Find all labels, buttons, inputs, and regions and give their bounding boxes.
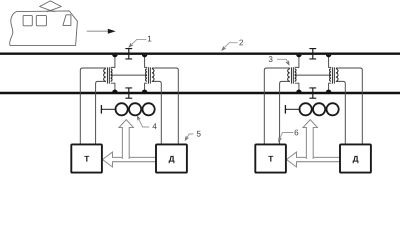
wire bond T2 secondary top to box D	[152, 68, 178, 145]
impedance bond transformer T1	[104, 67, 112, 83]
junction dot bottom rail left (right unit)	[296, 90, 301, 93]
junction dot bottom rail left	[112, 90, 117, 93]
wire bond T3 secondary top to box T2	[264, 68, 290, 145]
wire from top rail to bond T3 rail winding	[295, 55, 299, 68]
insulated joint on top rail (right unit)	[309, 49, 316, 59]
wire terminal to circles	[101, 108, 115, 110]
label D	[169, 156, 175, 163]
rail (top)	[0, 53, 400, 55]
junction dot bottom rail right (right unit)	[326, 89, 331, 92]
callout label 5 (box D)	[185, 131, 200, 140]
callout label 6 (box T of right unit)	[279, 130, 299, 142]
impedance bond transformer T4	[330, 67, 338, 83]
box T (transmitter)	[71, 144, 102, 172]
hollow arrow from box D2 to box T2	[287, 152, 341, 167]
callout label 3 (bond of right unit)	[269, 56, 289, 64]
junction dot top rail right (right unit)	[326, 55, 331, 58]
label T2	[268, 156, 273, 162]
coil circle 2	[129, 103, 141, 115]
coil circle 5	[313, 103, 325, 115]
wire bond T4 secondary top to box D2	[336, 68, 362, 145]
box D2 (decoder)	[340, 144, 371, 172]
insulated joint on bottom rail (right unit)	[309, 88, 316, 98]
hollow arrow up to coils (right unit)	[303, 120, 317, 159]
box T2 (transmitter)	[255, 144, 286, 172]
label D2	[353, 156, 359, 163]
wire from top rail to bond T2 rail winding	[145, 55, 148, 68]
label T	[84, 156, 89, 162]
direction arrow of train	[87, 29, 116, 34]
junction dot top rail left	[112, 55, 117, 58]
impedance bond transformer T3	[288, 67, 296, 83]
wire from bottom rail to bond T3 rail winding	[295, 83, 299, 92]
coil circle 4	[300, 103, 312, 115]
wire from bottom rail to bond T2 rail winding	[145, 83, 148, 92]
rail (bottom)	[0, 92, 400, 94]
wire from bottom rail to bond T4 rail winding	[329, 83, 332, 92]
wire from top rail to bond T1 rail winding	[111, 55, 115, 68]
wire bond T1 secondary bottom to box T	[96, 81, 106, 144]
track connector terminal (right unit)	[284, 105, 286, 114]
coil circle 1	[116, 103, 128, 115]
wire from top rail to bond T4 rail winding	[329, 55, 332, 68]
wire bond T2 secondary bottom to box D	[152, 81, 161, 144]
locomotive pantograph	[40, 1, 62, 12]
wire center-tap link between bonds T1 and T2	[111, 74, 147, 76]
coil circle 3	[143, 103, 155, 115]
callout label 1 (insulated joint)	[129, 36, 151, 47]
insulated joint on top rail	[125, 49, 132, 59]
impedance bond transformer T2	[146, 67, 154, 83]
hollow arrow from box D to box T	[103, 152, 157, 167]
callout label 4 (coils)	[138, 117, 157, 130]
wire bond T3 secondary bottom to box T2	[280, 81, 290, 144]
box D (decoder)	[156, 144, 187, 172]
wire bond T1 secondary top to box T	[80, 68, 106, 145]
coil circle 6	[327, 103, 339, 115]
wire terminal to circles (right unit)	[285, 108, 299, 110]
wire from bottom rail to bond T1 rail winding	[111, 83, 115, 92]
track connector terminal	[100, 105, 102, 114]
locomotive windows	[23, 15, 71, 26]
locomotive body	[10, 11, 78, 46]
junction dot bottom rail right	[142, 89, 147, 92]
wire center-tap link between bonds T3 and T4	[295, 74, 331, 76]
wire bond T4 secondary bottom to box D2	[336, 81, 345, 144]
hollow arrow up to coils	[119, 120, 133, 159]
insulated joint on bottom rail	[125, 88, 132, 98]
junction dot top rail left (right unit)	[296, 55, 301, 58]
callout label 2 (rail line)	[222, 40, 243, 50]
junction dot top rail right	[142, 55, 147, 58]
